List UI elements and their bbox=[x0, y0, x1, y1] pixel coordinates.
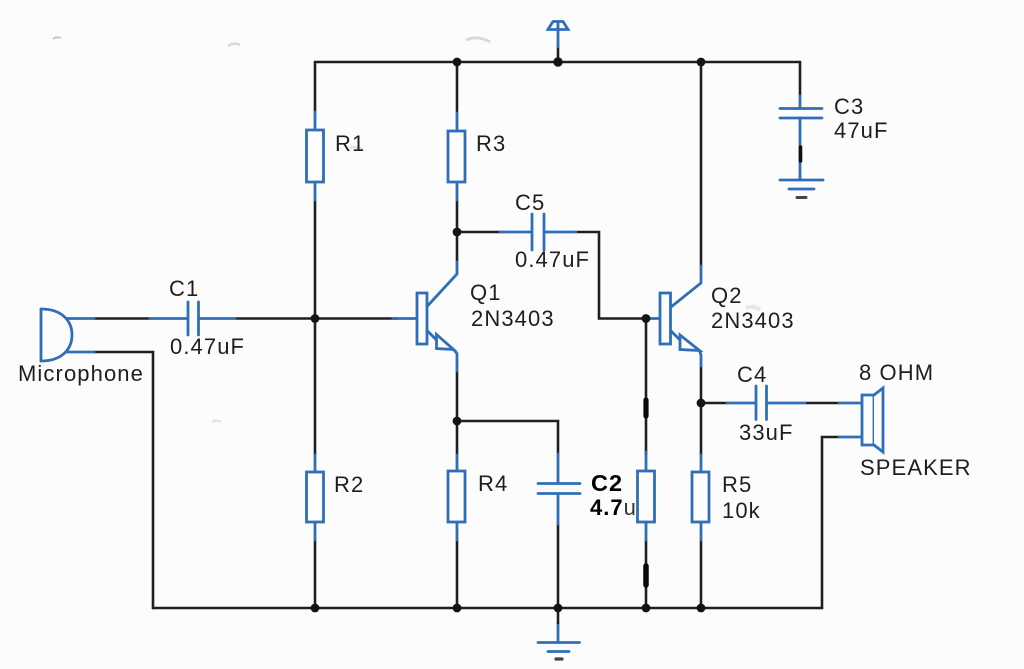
power VCC bbox=[548, 22, 568, 48]
wire Q2 emitter bbox=[700, 366, 703, 403]
capacitor C3 bbox=[780, 96, 822, 179]
junction node E2 bbox=[697, 399, 706, 408]
capacitor C4 bbox=[727, 386, 805, 420]
resistor R4 bbox=[448, 455, 465, 540]
svg-text:47uF: 47uF bbox=[834, 118, 889, 143]
junction node B2 bbox=[642, 314, 651, 323]
wire R1 top bbox=[314, 62, 317, 112]
svg-text:C3: C3 bbox=[834, 94, 864, 119]
junction bottom R5 bbox=[697, 604, 706, 613]
wire C5 to Q2 base bbox=[576, 232, 646, 319]
wire R1 bottom bbox=[314, 200, 317, 319]
wire R3 bottom to node C bbox=[456, 200, 459, 232]
wire node E1 to C2 bbox=[457, 421, 558, 454]
wire R5 bottom bbox=[700, 540, 703, 608]
junction node top VCC bbox=[553, 57, 562, 66]
capacitor C1 bbox=[150, 302, 235, 335]
wire Q2 base resistor bottom bbox=[645, 540, 648, 608]
wire node C to C5 bbox=[457, 231, 500, 234]
wire Q2 collector bbox=[700, 62, 703, 266]
speaker LS1 bbox=[839, 388, 883, 452]
svg-text:8 OHM: 8 OHM bbox=[859, 360, 934, 385]
wire R5 top bbox=[700, 403, 703, 455]
svg-text:2N3403: 2N3403 bbox=[471, 306, 555, 331]
black ink mark above base resistor bbox=[643, 400, 648, 416]
svg-text:2N3403: 2N3403 bbox=[711, 308, 795, 333]
resistor R1 bbox=[307, 112, 324, 200]
svg-text:Q1: Q1 bbox=[470, 280, 502, 305]
dark dash below C3 ground bbox=[797, 196, 806, 199]
wire Q1 emitter bbox=[456, 371, 459, 421]
svg-text:C2: C2 bbox=[591, 470, 623, 496]
wire ground stub black part bbox=[557, 608, 560, 623]
svg-text:C1: C1 bbox=[169, 276, 199, 301]
capacitor C2 bbox=[538, 454, 580, 524]
wire bottom rail bbox=[153, 607, 822, 610]
resistor Q2 base bias bbox=[638, 452, 655, 540]
wire R2 top bbox=[314, 319, 317, 456]
svg-text:0.47uF: 0.47uF bbox=[515, 247, 590, 272]
junction bottom R2 bbox=[311, 604, 320, 613]
svg-text:33uF: 33uF bbox=[739, 420, 794, 445]
junction node C (Q1 collector) bbox=[453, 228, 462, 237]
svg-text:C4: C4 bbox=[737, 362, 767, 387]
svg-text:SPEAKER: SPEAKER bbox=[860, 455, 972, 480]
junction bottom base resistor bbox=[642, 604, 651, 613]
resistor R5 bbox=[692, 455, 709, 540]
svg-text:R5: R5 bbox=[722, 472, 752, 497]
microphone MIC1 bbox=[41, 309, 94, 361]
resistor R2 bbox=[307, 455, 324, 540]
capacitor C5 bbox=[500, 214, 576, 250]
svg-text:R3: R3 bbox=[476, 131, 506, 156]
wire R2 bottom bbox=[314, 540, 317, 608]
svg-text:R1: R1 bbox=[335, 131, 365, 156]
junction node E1 bbox=[453, 417, 462, 426]
wire Q2 base resistor top bbox=[645, 319, 648, 455]
wire mic to C1 bbox=[94, 317, 150, 320]
junction node top Q2 collector bbox=[697, 58, 706, 67]
wire C1 to node B1 bbox=[235, 317, 315, 320]
svg-text:R2: R2 bbox=[334, 472, 364, 497]
ground C3 bbox=[780, 180, 823, 189]
svg-text:R4: R4 bbox=[478, 471, 508, 496]
ground bottom bbox=[538, 623, 580, 652]
black ink mark below base resistor bbox=[643, 566, 649, 585]
svg-text:0.47uF: 0.47uF bbox=[170, 334, 245, 359]
wire node E2 to C4 bbox=[701, 402, 727, 405]
svg-text:10k: 10k bbox=[722, 498, 761, 523]
black ink mark on C3 lead bbox=[799, 147, 803, 161]
dark dash bottom ground tier3 bbox=[556, 657, 562, 660]
svg-text:C5: C5 bbox=[515, 190, 545, 215]
wire R3 top bbox=[456, 62, 459, 113]
transistor Q2 bbox=[646, 266, 701, 366]
svg-text:4.7u: 4.7u bbox=[590, 495, 637, 520]
wire speaker return bbox=[822, 437, 839, 608]
wire Q1 collector bbox=[456, 232, 459, 262]
wire top rail bbox=[315, 61, 800, 64]
junction bottom R4 bbox=[453, 604, 462, 613]
junction bottom C2 bbox=[554, 604, 563, 613]
wire C2 bottom bbox=[557, 524, 560, 608]
svg-text:Microphone: Microphone bbox=[18, 361, 144, 386]
wire VCC stem lower bbox=[557, 47, 560, 62]
transistor Q1 bbox=[393, 262, 457, 371]
wire C4 to speaker bbox=[805, 402, 839, 405]
resistor R3 bbox=[448, 113, 465, 200]
wire R4 bottom bbox=[456, 540, 459, 608]
svg-text:Q2: Q2 bbox=[711, 283, 743, 308]
wire C3 top bbox=[799, 62, 802, 96]
wire mic bottom return bbox=[94, 352, 153, 608]
junction node B1 bbox=[311, 314, 320, 323]
wire node B1 to Q1 base bbox=[315, 317, 397, 320]
junction node top R3 bbox=[453, 58, 462, 67]
wire R4 top bbox=[456, 421, 459, 455]
